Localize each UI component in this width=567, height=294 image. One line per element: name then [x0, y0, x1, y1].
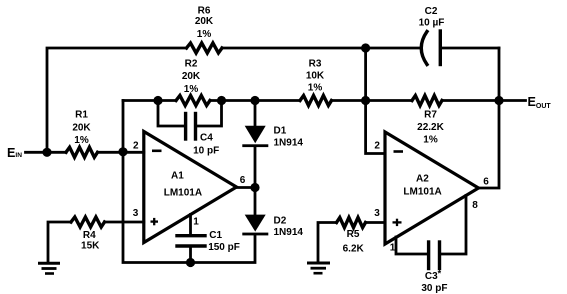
node: A2 pin2 tap	[361, 96, 370, 105]
resistor R2	[176, 96, 210, 106]
svg-text:6: 6	[240, 175, 246, 186]
svg-text:R5: R5	[347, 229, 360, 240]
capacitor C2 straight plate	[439, 31, 442, 65]
svg-text:20K: 20K	[182, 71, 201, 82]
svg-text:1%: 1%	[197, 29, 212, 40]
label R3 10K 1%	[306, 58, 325, 93]
svg-text:2: 2	[374, 141, 380, 152]
wire R7 to Eout node	[442, 99, 499, 102]
node: top rail tap	[361, 43, 370, 52]
capacitor C1 top lead from pin1	[189, 215, 192, 236]
capacitor C1 bottom lead	[189, 246, 192, 263]
label R5 6.2K	[343, 229, 365, 254]
svg-text:6.2K: 6.2K	[343, 243, 365, 254]
svg-text:22.2K: 22.2K	[417, 122, 444, 133]
op-amp A1 plus sign	[151, 218, 159, 225]
label C4 10pF	[193, 133, 219, 157]
node: A1 output	[250, 183, 259, 192]
svg-text:3: 3	[374, 208, 380, 219]
svg-text:R4: R4	[83, 230, 96, 241]
svg-text:LM101A: LM101A	[403, 186, 441, 197]
svg-text:10 pF: 10 pF	[193, 146, 219, 157]
svg-text:20K: 20K	[72, 122, 91, 133]
wire Eout lead	[499, 99, 526, 102]
wire A1 pin3 / R4 lead	[48, 222, 71, 262]
label A2	[403, 174, 441, 198]
label R1 20K 1%	[72, 110, 91, 147]
wire A2 pin2 lead	[366, 101, 385, 154]
node: Ein junction	[42, 148, 51, 157]
capacitor C3 plates	[427, 242, 430, 269]
svg-text:C1: C1	[209, 230, 222, 241]
label R4 15K	[81, 230, 100, 252]
wire top-left corner: feedback rail from Ein node up and across	[47, 48, 187, 152]
op-amp A2 minus sign	[394, 150, 404, 153]
svg-text:150 pF: 150 pF	[208, 242, 240, 253]
wire Ein lead	[26, 151, 67, 154]
op-amp A1 triangle	[144, 132, 237, 243]
ground (A1 / R4)	[38, 263, 60, 273]
node: D1 top	[250, 96, 259, 105]
node: R2 right	[217, 96, 226, 105]
svg-text:A1: A1	[171, 170, 184, 181]
wire R1 to A1 pin2	[98, 151, 144, 154]
op-amp A1 minus sign	[152, 150, 162, 153]
svg-text:3: 3	[133, 208, 139, 219]
label R2 20K 1%	[182, 59, 201, 95]
capacitor C4 left lead	[158, 101, 184, 127]
label A1	[164, 170, 202, 198]
svg-text:15K: 15K	[81, 241, 100, 252]
wire D1 top lead	[254, 101, 257, 127]
node: summing junction at R1/pin2	[118, 147, 127, 156]
svg-text:1N914: 1N914	[274, 137, 304, 148]
wire L2 left segment	[123, 99, 176, 102]
svg-text:D1: D1	[274, 126, 287, 137]
capacitor C1 plates	[177, 234, 205, 237]
wire R2 to R3	[210, 99, 300, 102]
diode D1	[242, 126, 268, 147]
wire R6 to C2	[222, 47, 421, 50]
wire right rail down to A2 output	[479, 48, 500, 188]
resistor R4	[71, 217, 105, 227]
wire C2 to right rail	[442, 47, 499, 50]
svg-text:10 µF: 10 µF	[419, 17, 445, 28]
node: C1 bottom	[186, 258, 195, 267]
resistor R1	[66, 147, 98, 157]
svg-text:LM101A: LM101A	[164, 187, 202, 198]
capacitor C4 plates	[184, 114, 187, 140]
op-amp A2 plus sign	[393, 219, 402, 226]
label D2 1N914	[274, 215, 304, 238]
label R6 20K 1%	[195, 5, 214, 40]
svg-text:1%: 1%	[308, 83, 323, 94]
ground (A2 / R5)	[307, 263, 330, 273]
svg-text:30 pF: 30 pF	[421, 283, 447, 294]
svg-text:20K: 20K	[195, 16, 214, 27]
capacitor C4 right lead	[197, 101, 222, 127]
svg-text:A2: A2	[416, 174, 429, 185]
svg-text:C2: C2	[425, 6, 438, 17]
resistor R7	[412, 96, 442, 106]
capacitor C3 left lead from A2 pin1	[396, 237, 427, 254]
resistor R5	[337, 218, 366, 228]
wire D1 to output node	[254, 146, 257, 188]
wire R5 to A2 pin3	[366, 221, 386, 224]
svg-text:D2: D2	[274, 215, 287, 226]
node: R2 left	[153, 96, 162, 105]
wire summing node down and bottom rail to D2 anode	[123, 101, 255, 263]
svg-text:C4: C4	[200, 133, 213, 144]
svg-text:1%: 1%	[423, 135, 438, 146]
svg-text:R2: R2	[185, 59, 198, 70]
svg-text:R3: R3	[309, 58, 322, 69]
svg-text:1: 1	[390, 242, 396, 253]
svg-text:1: 1	[193, 217, 199, 228]
svg-text:R7: R7	[424, 109, 437, 120]
label C2 10uF	[419, 6, 445, 29]
label D1 1N914	[274, 126, 304, 149]
svg-text:10K: 10K	[306, 71, 325, 82]
svg-text:R6: R6	[198, 5, 211, 16]
op-amp A2 triangle	[385, 132, 479, 244]
wire A2 pin3 / R5 lead	[318, 223, 337, 262]
label C3 30pF	[421, 268, 447, 294]
svg-text:8: 8	[472, 200, 478, 211]
resistor R3	[300, 96, 332, 106]
wire A1 output	[236, 186, 255, 189]
label C1 150pF	[208, 230, 240, 253]
wire R3 to R7	[332, 99, 413, 102]
svg-text:6: 6	[483, 177, 489, 188]
resistor R6	[187, 43, 223, 53]
capacitor C3 right lead to A2 pin8	[441, 196, 466, 255]
svg-text:1%: 1%	[74, 135, 89, 146]
wire top rail tap down to L2	[364, 48, 367, 101]
wire D2 top lead	[254, 188, 257, 217]
svg-text:2: 2	[133, 141, 139, 152]
svg-text:1%: 1%	[184, 84, 199, 95]
capacitor C2 curved plate	[421, 32, 427, 65]
node: Eout junction	[494, 96, 503, 105]
svg-text:R1: R1	[75, 110, 88, 121]
diode D2	[242, 215, 268, 236]
label R7 22.2K 1%	[417, 109, 444, 145]
svg-text:1N914: 1N914	[274, 227, 304, 238]
wire R4 to A1 pin3	[105, 221, 144, 224]
